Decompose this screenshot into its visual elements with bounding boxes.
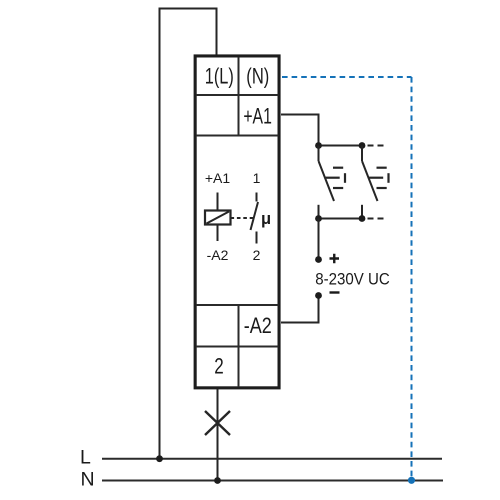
- rail L: [102, 458, 442, 460]
- pushbutton S1 actuator top bar: [333, 167, 343, 169]
- svg-text:μ: μ: [261, 210, 271, 228]
- device divider vertical bottom: [238, 305, 240, 387]
- device U1 outline: [195, 56, 279, 388]
- svg-text:1: 1: [253, 170, 261, 186]
- label minus: [330, 291, 340, 293]
- pushbutton S2 actuator bottom bar: [377, 187, 387, 189]
- junction node on L: [156, 455, 163, 462]
- contact blade: [251, 202, 259, 230]
- pushbutton S2 actuator tick: [387, 173, 389, 183]
- svg-text:2: 2: [253, 247, 261, 263]
- pushbutton S1 blade: [319, 161, 335, 201]
- wire top horizontal: [159, 8, 218, 10]
- pushbutton S2 lower stub: [361, 205, 363, 219]
- blue dashed wire N vertical: [411, 77, 413, 477]
- device divider row3: [196, 304, 279, 306]
- pushbutton S2 blade: [362, 161, 378, 201]
- contact top stub: [256, 193, 258, 202]
- pushbutton bottom rail: [319, 218, 363, 220]
- bottom rail continuation dashes: [368, 218, 386, 220]
- pushbutton S1 lower stub: [318, 205, 320, 219]
- wire from L rail up left side: [159, 8, 161, 461]
- pushbutton S1 actuator mid bar: [326, 177, 340, 179]
- svg-text:2: 2: [214, 354, 224, 379]
- wire down to device terminal 1(L): [216, 9, 218, 56]
- device divider row2: [196, 135, 279, 137]
- svg-text:+A1: +A1: [243, 103, 272, 128]
- pushbutton S1 actuator tick: [344, 173, 346, 183]
- label plus: [330, 254, 340, 264]
- blue node on N rail: [408, 477, 415, 484]
- wire -A2 to minus node: [281, 295, 319, 323]
- rail N: [102, 480, 443, 482]
- actuating dashed link: [231, 217, 254, 219]
- pushbutton top rail: [319, 145, 363, 147]
- svg-text:1(L): 1(L): [205, 64, 234, 89]
- junction node rail top right: [359, 142, 366, 149]
- svg-text:-A2: -A2: [244, 313, 272, 338]
- svg-text:-A2: -A2: [207, 247, 229, 263]
- wire device bottom to N rail: [217, 389, 219, 481]
- svg-text:+A1: +A1: [205, 170, 231, 186]
- svg-text:(N): (N): [246, 64, 269, 89]
- svg-text:L: L: [80, 446, 91, 468]
- node plus: [315, 256, 322, 263]
- pushbutton S2 actuator mid bar: [369, 177, 383, 179]
- junction node rail top left: [315, 142, 322, 149]
- pushbutton S1 stub: [318, 146, 320, 162]
- device divider vertical top: [238, 57, 240, 136]
- pushbutton S2 actuator top bar: [377, 167, 387, 169]
- top rail continuation dashes: [368, 145, 386, 147]
- contact bottom stub: [256, 232, 258, 244]
- coil K1 top lead: [217, 193, 219, 211]
- wire +A1 to pushbutton rail: [281, 115, 319, 147]
- junction node rail bottom left: [315, 215, 322, 222]
- junction node rail bottom right: [359, 215, 366, 222]
- coil K1 body: [205, 211, 231, 225]
- device divider row4: [196, 346, 279, 348]
- pushbutton S1 actuator bottom bar: [333, 187, 343, 189]
- lamp X symbol: [205, 411, 230, 435]
- device divider row1: [196, 94, 279, 96]
- wire rail to plus node: [318, 219, 320, 260]
- coil K1 bottom lead: [217, 225, 219, 242]
- svg-text:N: N: [81, 468, 95, 490]
- pushbutton S2 stub: [361, 146, 363, 162]
- coil K1 diagonal: [207, 212, 230, 224]
- blue dashed wire N horizontal: [282, 76, 412, 78]
- node minus: [315, 292, 322, 299]
- svg-text:8-230V UC: 8-230V UC: [315, 270, 390, 289]
- junction node on N: [214, 477, 221, 484]
